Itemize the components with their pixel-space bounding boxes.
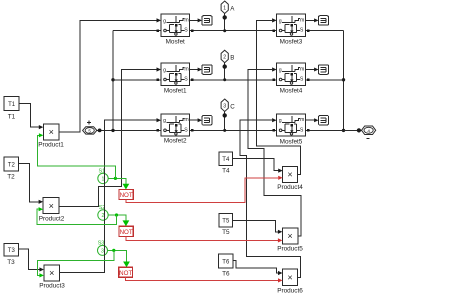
- svg-text:Mosfet5: Mosfet5: [280, 139, 303, 146]
- terminator 6: [319, 116, 329, 126]
- svg-text:m: m: [184, 17, 188, 23]
- terminator 5: [319, 65, 329, 75]
- svg-text:B: B: [230, 55, 234, 62]
- svg-text:1: 1: [223, 5, 226, 11]
- svg-text:1: 1: [102, 177, 105, 183]
- svg-text:Product2: Product2: [39, 215, 65, 222]
- wire port A drop: [223, 14, 227, 33]
- svg-text:×: ×: [287, 272, 292, 282]
- wire T1 to Product1: [19, 104, 43, 130]
- svg-text:Product6: Product6: [277, 287, 303, 294]
- svg-text:NOT: NOT: [120, 192, 133, 199]
- svg-text:T2: T2: [7, 174, 15, 181]
- mosfet Mosfet4: [277, 63, 306, 94]
- port B: [221, 50, 234, 63]
- terminator 2: [202, 65, 212, 75]
- svg-text:S: S: [300, 28, 304, 34]
- svg-text:g: g: [163, 118, 166, 124]
- svg-text:m: m: [184, 117, 188, 123]
- svg-text:×: ×: [49, 268, 54, 278]
- wire S2 to NOT2: [108, 213, 129, 226]
- wire Product6 to Mosfet5 gate: [240, 118, 300, 277]
- svg-text:T1: T1: [8, 102, 16, 108]
- svg-text:S: S: [300, 77, 304, 83]
- wire S1 to NOT1: [108, 177, 129, 190]
- svg-text:S: S: [184, 77, 188, 83]
- wire T3 to Product3: [19, 249, 44, 272]
- wire port B drop: [223, 63, 227, 82]
- wire T4 to Product4: [233, 159, 283, 173]
- constant T1: [4, 97, 19, 121]
- wire NOT2 to Product5: [126, 237, 282, 243]
- outport S3: [98, 241, 108, 256]
- wire S2 branch to Product2: [37, 207, 116, 225]
- wire phase B: [190, 79, 277, 82]
- svg-text:T3: T3: [8, 248, 16, 254]
- svg-text:Mosfet4: Mosfet4: [280, 87, 303, 94]
- svg-text:S3: S3: [98, 241, 105, 247]
- terminator 4: [319, 16, 329, 26]
- wire Product5 to Mosfet4 gate: [248, 67, 301, 236]
- wire Mosfet3 m to terminator 4: [305, 18, 318, 22]
- product Product6: [277, 269, 303, 294]
- wire phase C: [190, 129, 277, 132]
- product Product5: [277, 228, 303, 252]
- outport S2: [98, 205, 108, 220]
- port 4 -: [362, 126, 376, 138]
- wire NOT1 to Product4: [126, 176, 283, 203]
- mosfet Mosfet3: [277, 14, 306, 45]
- svg-text:T4: T4: [222, 167, 230, 174]
- port C: [221, 99, 235, 112]
- wire port C drop: [223, 112, 227, 132]
- svg-text:m: m: [300, 66, 304, 72]
- svg-text:2: 2: [223, 55, 226, 61]
- svg-text:Mosfet2: Mosfet2: [164, 138, 187, 145]
- svg-text:g: g: [279, 18, 282, 24]
- wire row3 to port 4: [305, 128, 361, 132]
- svg-text:m: m: [300, 17, 304, 23]
- wire drain row2: [113, 79, 161, 82]
- product Product1: [38, 124, 64, 149]
- svg-text:S: S: [300, 127, 304, 133]
- constant T5: [219, 214, 233, 237]
- svg-text:Mosfet: Mosfet: [166, 38, 185, 45]
- svg-text:S1: S1: [99, 169, 106, 175]
- svg-text:T5: T5: [222, 229, 230, 236]
- wire T6 to Product6: [233, 261, 283, 275]
- wire S1 branch to Product1: [38, 133, 116, 178]
- constant T4: [219, 152, 233, 175]
- wire phase A: [190, 30, 277, 33]
- svg-text:C: C: [230, 103, 235, 110]
- svg-text:NOT: NOT: [120, 229, 133, 236]
- svg-text:T6: T6: [222, 260, 230, 266]
- wire DC minus row1: [305, 30, 343, 33]
- NOT gate 2: [119, 226, 133, 236]
- svg-text:×: ×: [287, 169, 292, 179]
- svg-text:Product1: Product1: [38, 142, 64, 149]
- svg-text:×: ×: [49, 201, 54, 211]
- wire S3 branch to Product3: [38, 250, 114, 277]
- port 5 +: [83, 121, 97, 135]
- svg-text:g: g: [279, 118, 282, 124]
- svg-text:4: 4: [367, 128, 370, 133]
- mosfet Mosfet5: [277, 114, 306, 146]
- svg-text:m: m: [184, 66, 188, 72]
- wire Mosfet2 m to terminator 3: [190, 118, 203, 122]
- wire T5 to Product5: [233, 220, 283, 234]
- svg-text:3: 3: [223, 103, 226, 109]
- wire Product2 to Mosfet1 gate: [59, 67, 161, 206]
- wire DC minus riser: [342, 31, 345, 132]
- svg-text:T6: T6: [222, 271, 230, 278]
- mosfet Mosfet1: [161, 63, 190, 94]
- product Product4: [277, 167, 303, 191]
- product Product2: [39, 198, 65, 223]
- svg-text:T4: T4: [222, 157, 230, 163]
- svg-text:2: 2: [102, 213, 105, 219]
- wire Product4 to Mosfet3 gate: [256, 18, 300, 174]
- svg-text:Product4: Product4: [277, 184, 303, 191]
- svg-text:S: S: [184, 28, 188, 34]
- svg-text:g: g: [279, 67, 282, 73]
- wire DC plus bus: [97, 129, 161, 133]
- wire Product1 to Mosfet gate: [59, 18, 161, 132]
- wire drain row1: [113, 30, 161, 33]
- svg-text:T3: T3: [7, 259, 15, 266]
- svg-text:Product3: Product3: [39, 282, 65, 289]
- svg-text:Mosfet3: Mosfet3: [280, 38, 303, 45]
- svg-text:S: S: [184, 127, 188, 133]
- NOT gate 3: [119, 267, 133, 277]
- svg-text:T5: T5: [222, 219, 230, 225]
- wire Product3 to Mosfet2 gate: [60, 118, 162, 272]
- mosfet Mosfet: [161, 14, 190, 45]
- svg-text:3: 3: [101, 249, 104, 255]
- constant T2: [4, 157, 19, 181]
- port A: [221, 1, 235, 14]
- wire drain riser: [111, 31, 114, 132]
- NOT gate 1: [119, 190, 133, 200]
- wire Mosfet1 m to terminator 2: [190, 68, 203, 72]
- svg-text:Product5: Product5: [277, 246, 303, 253]
- wire Mosfet4 m to terminator 5: [305, 68, 318, 72]
- svg-text:×: ×: [287, 231, 292, 241]
- svg-text:Mosfet1: Mosfet1: [164, 87, 187, 94]
- constant T6: [219, 254, 234, 278]
- terminator 1: [202, 16, 212, 26]
- wire Mosfet5 m to terminator 6: [305, 118, 318, 122]
- wire T2 to Product2: [19, 164, 44, 204]
- constant T3: [4, 244, 19, 267]
- wire S3 to NOT3: [108, 249, 130, 268]
- wire NOT3 to Product6: [126, 277, 283, 282]
- svg-text:g: g: [163, 18, 166, 24]
- product Product3: [39, 265, 65, 289]
- outport S1: [98, 169, 108, 184]
- wire DC minus row2: [305, 79, 343, 82]
- terminator 3: [202, 116, 212, 126]
- svg-text:NOT: NOT: [119, 270, 132, 277]
- svg-text:T2: T2: [8, 163, 16, 169]
- svg-text:5: 5: [88, 128, 91, 133]
- svg-text:T1: T1: [8, 114, 16, 121]
- mosfet Mosfet2: [161, 114, 190, 145]
- wire Mosfet m to terminator 1: [190, 18, 203, 22]
- svg-text:m: m: [300, 117, 304, 123]
- svg-text:g: g: [163, 67, 166, 73]
- svg-text:×: ×: [49, 127, 54, 137]
